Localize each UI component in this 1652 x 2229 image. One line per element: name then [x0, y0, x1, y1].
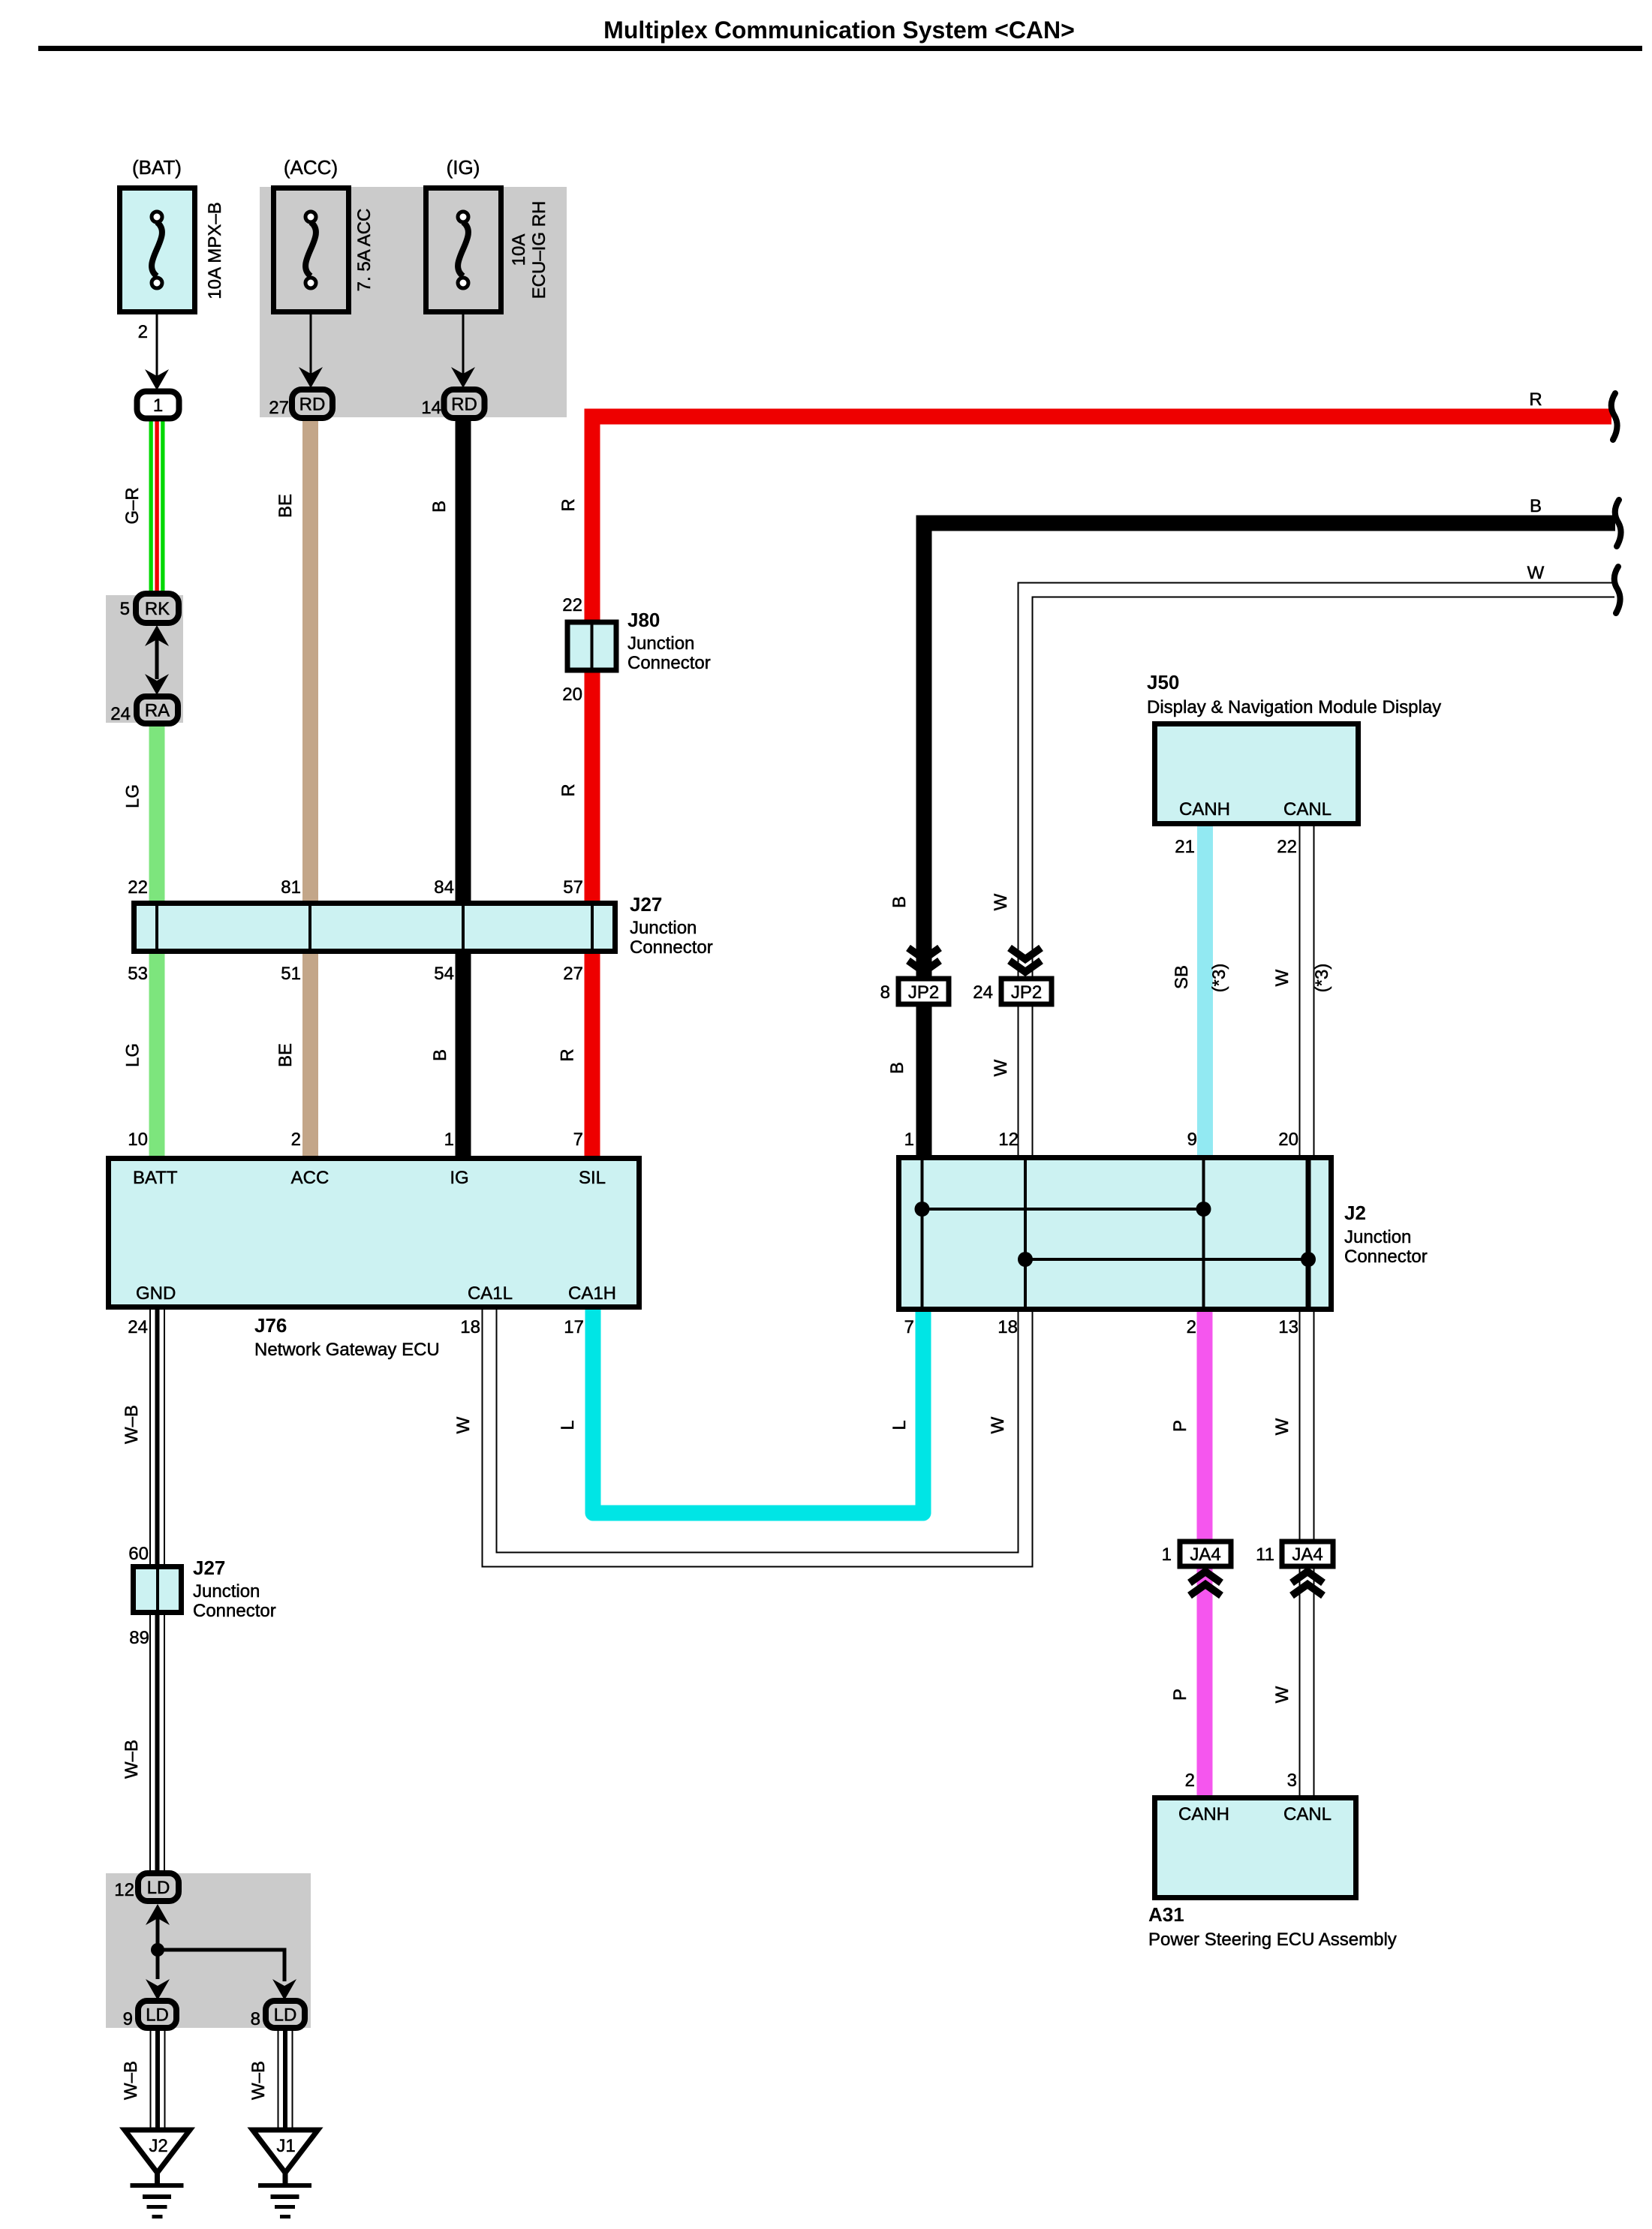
svg-text:3: 3	[1287, 1770, 1297, 1791]
wire W from JP2 to J2 pin 12	[1018, 1006, 1034, 1155]
svg-text:18: 18	[998, 1317, 1018, 1337]
svg-text:LD: LD	[146, 2005, 169, 2026]
wire P from JA4 to A31 CANH	[1197, 1569, 1213, 1795]
svg-text:81: 81	[281, 877, 301, 898]
junction connector J27 (long box)	[134, 903, 615, 952]
svg-text:CA1H: CA1H	[568, 1283, 616, 1304]
ground triangle J1	[253, 2130, 318, 2173]
svg-text:CANL: CANL	[1283, 799, 1332, 820]
svg-text:14: 14	[421, 398, 441, 418]
wire W-B from J76 GND to J27	[149, 1310, 165, 1564]
connector oval LD (pin 8)	[266, 2001, 305, 2028]
svg-text:10A MPX–B: 10A MPX–B	[205, 202, 225, 299]
wire LG from RA to J27 pin 22	[149, 723, 165, 901]
wire: fuse IG lead	[462, 314, 465, 377]
svg-text:18: 18	[460, 1317, 480, 1337]
svg-text:R: R	[1529, 390, 1542, 410]
svg-text:SIL: SIL	[579, 1168, 606, 1188]
svg-text:J80: J80	[627, 609, 660, 631]
svg-text:7. 5A ACC: 7. 5A ACC	[354, 209, 375, 292]
arrow into connector RD (IG)	[451, 367, 475, 388]
svg-text:LD: LD	[147, 1878, 170, 1898]
svg-text:P: P	[1170, 1689, 1190, 1701]
svg-text:BATT: BATT	[133, 1168, 178, 1188]
connector JP2 (pin 8)	[898, 979, 949, 1004]
wire to ground symbol J2	[155, 2171, 160, 2185]
wire BE from J27 pin 51 to J76 ACC	[302, 954, 318, 1156]
arrow down into LD (9)	[146, 1979, 170, 2000]
svg-text:Junction: Junction	[193, 1581, 260, 1602]
svg-text:B: B	[430, 1049, 450, 1061]
svg-text:24: 24	[973, 982, 993, 1003]
svg-text:J2: J2	[149, 2136, 167, 2156]
connector oval LD (pin 12)	[138, 1873, 179, 1901]
gray background panel behind LD connectors	[106, 1873, 311, 2028]
title underline rule	[38, 46, 1642, 51]
wire B from RD to J27 pin 84	[456, 418, 471, 901]
svg-text:RD: RD	[451, 395, 477, 415]
gray background panel behind RK/RA connectors	[106, 595, 183, 723]
svg-text:J2: J2	[1344, 1202, 1366, 1224]
ECU box J50	[1155, 724, 1359, 824]
arrow up (RK-RA link)	[145, 625, 169, 646]
svg-text:22: 22	[562, 595, 582, 615]
svg-text:JP2: JP2	[1011, 982, 1042, 1003]
connector JP2 (pin 24)	[1001, 979, 1052, 1004]
break symbol wire B	[1615, 500, 1621, 546]
svg-text:2: 2	[1187, 1317, 1196, 1337]
svg-text:W–B: W–B	[248, 2061, 269, 2100]
svg-text:W: W	[988, 1416, 1008, 1433]
junction connector J27 (small box)	[134, 1566, 182, 1613]
svg-text:J76: J76	[254, 1314, 287, 1337]
arrow chevrons out of JA4 (11)	[1292, 1572, 1323, 1596]
svg-text:(ACC): (ACC)	[284, 156, 338, 179]
arrow up into LD (12)	[146, 1904, 170, 1925]
svg-text:12: 12	[998, 1130, 1019, 1150]
svg-text:2: 2	[291, 1130, 301, 1150]
svg-text:LD: LD	[274, 2005, 297, 2026]
wire to ground symbol J1	[283, 2171, 288, 2185]
svg-text:W–B: W–B	[122, 1740, 142, 1779]
svg-text:LG: LG	[123, 1043, 143, 1067]
svg-text:8: 8	[880, 982, 890, 1003]
wire SB from J50 CANH to J2 pin 9	[1197, 826, 1213, 1155]
connector oval 1	[137, 392, 179, 419]
svg-text:W: W	[991, 1059, 1011, 1076]
svg-text:27: 27	[269, 398, 289, 418]
svg-text:Display & Navigation Module Di: Display & Navigation Module Display	[1147, 697, 1441, 717]
svg-text:13: 13	[1278, 1317, 1298, 1337]
svg-text:27: 27	[563, 964, 583, 984]
svg-text:1: 1	[1162, 1545, 1172, 1565]
svg-text:SB: SB	[1172, 965, 1192, 989]
wire W-B to ground J1	[278, 2028, 293, 2128]
svg-text:CANH: CANH	[1179, 799, 1230, 820]
wire W from J50 CANL to J2 pin 20	[1299, 826, 1315, 1155]
svg-text:W: W	[1272, 1686, 1292, 1703]
svg-text:24: 24	[128, 1317, 148, 1337]
wire R from J27 pin 27 to J76 SIL	[585, 954, 600, 1156]
svg-text:JP2: JP2	[908, 982, 939, 1003]
svg-text:2: 2	[138, 322, 148, 342]
arrow into connector 1	[145, 369, 169, 390]
svg-text:B: B	[887, 1062, 907, 1074]
wire W from JA4 to A31 CANL	[1299, 1569, 1315, 1795]
svg-text:2: 2	[1185, 1770, 1195, 1791]
svg-text:5: 5	[120, 599, 130, 619]
wire W-B from J27 to LD	[149, 1615, 165, 1873]
svg-text:20: 20	[562, 684, 582, 705]
wire B from JP2 to J2 pin 1	[916, 1006, 932, 1155]
svg-text:84: 84	[434, 877, 454, 898]
wire R: horizontal from right edge, down through J80 to J27 pin 57	[592, 417, 1611, 901]
svg-text:W–B: W–B	[121, 2061, 141, 2100]
svg-text:W: W	[1272, 1418, 1292, 1435]
svg-text:57: 57	[563, 877, 583, 898]
svg-text:(*3): (*3)	[1312, 964, 1332, 993]
svg-text:W: W	[991, 893, 1011, 910]
svg-text:20: 20	[1278, 1130, 1298, 1150]
svg-text:W: W	[1527, 563, 1545, 583]
ECU box A31 Power Steering ECU Assembly	[1155, 1798, 1356, 1898]
svg-text:JA4: JA4	[1292, 1545, 1323, 1565]
svg-text:CA1L: CA1L	[468, 1283, 513, 1304]
J2 internal link 1-9	[915, 1202, 1211, 1217]
svg-text:(*3): (*3)	[1209, 964, 1229, 993]
svg-text:53: 53	[128, 964, 148, 984]
svg-text:(IG): (IG)	[447, 156, 480, 179]
ground symbol J1	[258, 2183, 311, 2218]
svg-text:11: 11	[1256, 1545, 1274, 1565]
svg-text:R: R	[558, 498, 579, 511]
svg-text:W: W	[453, 1416, 474, 1433]
wire B: horizontal from right edge down to JP2 pin 8	[924, 523, 1615, 976]
wire W-B to ground J2	[150, 2028, 166, 2128]
svg-text:CANH: CANH	[1178, 1804, 1229, 1824]
wire LG from J27 pin 53 to J76 BATT	[149, 954, 165, 1156]
svg-text:22: 22	[128, 877, 148, 898]
svg-text:9: 9	[1187, 1130, 1197, 1150]
svg-text:B: B	[889, 896, 910, 908]
svg-text:LG: LG	[123, 784, 143, 808]
svg-text:L: L	[889, 1420, 910, 1430]
svg-text:J27: J27	[630, 893, 662, 916]
svg-text:G–R: G–R	[122, 487, 143, 524]
svg-text:RD: RD	[299, 395, 326, 415]
break symbol wire W	[1614, 567, 1620, 613]
wire P from J2 pin 2 to JA4	[1197, 1312, 1213, 1539]
svg-text:Connector: Connector	[627, 653, 711, 673]
svg-text:JA4: JA4	[1190, 1545, 1220, 1565]
ECU box J76 Network Gateway ECU	[109, 1159, 639, 1307]
wire B from J27 pin 54 to J76 IG	[456, 954, 471, 1156]
fuse (ACC) 7.5A	[274, 156, 349, 312]
svg-text:Junction: Junction	[627, 633, 694, 654]
svg-text:Connector: Connector	[1344, 1247, 1428, 1267]
arrow down (RK-RA link)	[145, 674, 169, 695]
svg-text:J50: J50	[1147, 671, 1179, 693]
arrow chevrons into JP2 (24)	[1010, 948, 1041, 972]
svg-text:22: 22	[1277, 837, 1297, 857]
svg-text:GND: GND	[136, 1283, 176, 1304]
svg-text:8: 8	[251, 2009, 260, 2029]
svg-text:Connector: Connector	[193, 1601, 276, 1621]
wire: GND branch vertical	[156, 1918, 160, 1979]
svg-text:P: P	[1170, 1420, 1190, 1432]
wire: fuse ACC lead	[310, 314, 312, 377]
svg-text:7: 7	[904, 1317, 914, 1337]
svg-text:9: 9	[123, 2009, 133, 2029]
svg-text:Junction: Junction	[630, 918, 697, 938]
wire: GND branch horizontal + right vertical	[158, 1950, 284, 1981]
svg-text:CANL: CANL	[1283, 1804, 1332, 1824]
junction node dot	[151, 1943, 164, 1957]
fuse (BAT) 10A MPX-B	[120, 156, 195, 312]
connector oval RA	[137, 696, 178, 723]
connector oval RD (ACC)	[292, 390, 333, 418]
arrow chevrons out of JA4 (1)	[1190, 1572, 1221, 1596]
svg-text:Connector: Connector	[630, 937, 713, 958]
svg-text:R: R	[558, 784, 579, 796]
connector oval RD (IG)	[444, 390, 485, 418]
J2 internal link 12-20	[1018, 1252, 1316, 1267]
svg-text:J1: J1	[276, 2136, 295, 2156]
connector JA4 (pin 11)	[1282, 1542, 1333, 1566]
svg-text:RK: RK	[145, 599, 170, 619]
svg-text:L: L	[558, 1420, 578, 1430]
svg-text:IG: IG	[450, 1168, 468, 1188]
wire W: horizontal from right edge down to JP2 pin 24	[1025, 590, 1614, 976]
junction connector J2 (big box)	[899, 1158, 1332, 1310]
svg-text:RA: RA	[145, 701, 170, 721]
svg-text:60: 60	[128, 1544, 149, 1564]
break symbol wire R	[1611, 393, 1617, 440]
gray background panel behind ACC/IG fuses	[260, 187, 567, 417]
arrow chevrons into JP2 (8)	[908, 948, 940, 972]
svg-text:J27: J27	[193, 1557, 225, 1579]
svg-text:Multiplex Communication System: Multiplex Communication System <CAN>	[603, 17, 1075, 44]
svg-text:1: 1	[904, 1130, 914, 1150]
wire W (CA1L U-link): J76 CA1L to J2 pin 7... outer run	[489, 1310, 1025, 1560]
junction connector J80	[567, 622, 616, 670]
svg-text:R: R	[558, 1048, 578, 1061]
svg-text:1: 1	[444, 1130, 454, 1150]
svg-text:54: 54	[434, 964, 454, 984]
svg-text:A31: A31	[1148, 1903, 1184, 1926]
wire W from J2 pin 13 to JA4	[1299, 1312, 1315, 1539]
svg-text:24: 24	[110, 704, 131, 724]
svg-text:Junction: Junction	[1344, 1227, 1411, 1247]
svg-text:17: 17	[564, 1317, 584, 1337]
svg-text:BE: BE	[275, 494, 296, 518]
svg-text:51: 51	[281, 964, 301, 984]
svg-text:Power Steering ECU Assembly: Power Steering ECU Assembly	[1148, 1930, 1397, 1950]
svg-text:Network Gateway ECU: Network Gateway ECU	[254, 1340, 440, 1360]
wire L (CA1H U-link): J76 CA1H to J2 pin 7	[593, 1310, 923, 1513]
svg-text:1: 1	[153, 396, 163, 416]
wire RK-RA link shaft	[155, 639, 159, 679]
ground symbol J2	[131, 2183, 184, 2218]
fuse (IG) 10A ECU-IG RH	[426, 156, 501, 312]
svg-text:89: 89	[129, 1628, 149, 1648]
svg-text:B: B	[1530, 496, 1542, 516]
connector JA4 (pin 1)	[1180, 1542, 1231, 1566]
svg-text:W–B: W–B	[122, 1405, 142, 1444]
wire BE from RD to J27 pin 81	[302, 418, 318, 901]
wire G-R (green/red) from connector 1 to RK	[149, 418, 165, 594]
svg-text:(BAT): (BAT)	[132, 156, 182, 179]
arrow down into LD (8)	[272, 1979, 296, 2000]
ground triangle J2	[125, 2130, 190, 2173]
svg-text:ACC: ACC	[291, 1168, 329, 1188]
svg-text:12: 12	[114, 1880, 134, 1900]
svg-text:B: B	[429, 501, 450, 513]
arrow into connector RD (ACC)	[299, 367, 323, 388]
svg-text:7: 7	[573, 1130, 583, 1150]
svg-text:21: 21	[1175, 837, 1195, 857]
wire: fuse BAT pin 2 lead	[156, 314, 158, 379]
connector oval RK	[136, 594, 179, 623]
svg-text:BE: BE	[275, 1043, 296, 1067]
connector oval LD (pin 9)	[138, 2001, 176, 2028]
svg-text:10: 10	[128, 1130, 148, 1150]
svg-text:W: W	[1272, 969, 1292, 986]
